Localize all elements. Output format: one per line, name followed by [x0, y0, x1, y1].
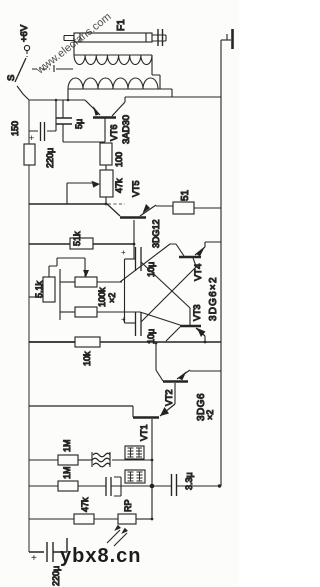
svg-text:+: +	[29, 133, 34, 143]
svg-text:VT5: VT5	[131, 180, 141, 197]
wire bottom rail	[29, 538, 67, 552]
transformer winding W2 (lower)	[68, 78, 172, 89]
wire rail y204 with wiper arrow	[29, 181, 125, 204]
capacitor 220u upper	[29, 100, 56, 168]
svg-text:RP: RP	[123, 499, 133, 512]
resistor 10k	[29, 337, 221, 366]
svg-text:VT3: VT3	[192, 304, 202, 321]
transistor VT2	[156, 343, 221, 406]
resistor 5.1k	[29, 258, 85, 302]
svg-text:1M: 1M	[62, 466, 72, 479]
svg-text:+6V: +6V	[19, 24, 30, 42]
wire winding W2 left end down	[67, 89, 69, 100]
svg-text:220μ: 220μ	[45, 148, 55, 168]
transistor VT3	[166, 304, 206, 342]
svg-text:+: +	[121, 248, 126, 257]
svg-text:VT1: VT1	[139, 424, 149, 441]
wire cross coupling D2	[141, 267, 196, 322]
sensor element crystal	[92, 452, 152, 467]
svg-text:47k: 47k	[114, 178, 124, 193]
svg-text:3.3μ: 3.3μ	[184, 472, 194, 490]
wire tube left end to winding	[73, 42, 75, 55]
svg-text:VT2: VT2	[164, 389, 174, 406]
svg-text:10k: 10k	[82, 351, 92, 366]
label box sensor 2	[125, 470, 145, 483]
label 3DG6x2 multivibrator	[208, 276, 219, 321]
capacitor 220u lower	[31, 542, 61, 586]
svg-text:+: +	[121, 315, 126, 324]
capacitor 5u	[56, 100, 84, 142]
svg-text:3DG12: 3DG12	[151, 219, 161, 248]
svg-text:51: 51	[180, 189, 191, 201]
wire right bus	[220, 40, 222, 486]
svg-text:F1: F1	[116, 19, 127, 31]
label box sensor 1	[125, 446, 144, 459]
resistor 100k upper	[60, 244, 184, 320]
resistor 47k lower	[29, 497, 118, 524]
wire winding common right end	[152, 55, 172, 97]
svg-text:VT4: VT4	[193, 264, 204, 281]
transformer winding W1 (upper)	[74, 55, 152, 65]
terminal +6V	[19, 24, 30, 57]
wire emitter rail y100	[29, 99, 85, 101]
terminal electrode top right	[221, 29, 233, 49]
wire VT6 base node	[63, 141, 105, 143]
svg-text:150: 150	[10, 121, 20, 136]
transistor VT4	[179, 242, 221, 281]
wire VT5 base to cap node	[124, 259, 126, 323]
svg-text:51k: 51k	[72, 231, 82, 246]
transistor VT1	[29, 404, 175, 520]
capacitor 10u lower	[121, 312, 156, 344]
label 3DG6x2 pair VT1 VT2	[196, 393, 215, 421]
svg-text:VT6: VT6	[109, 124, 119, 141]
switch S	[6, 58, 29, 100]
svg-text:3DG6×2: 3DG6×2	[208, 276, 219, 321]
svg-text:5.1k: 5.1k	[34, 280, 44, 298]
svg-text:ybx8.cn: ybx8.cn	[60, 545, 141, 567]
resistor 1M upper	[29, 439, 92, 465]
resistor 100	[100, 143, 124, 170]
resistor 51k	[29, 231, 134, 249]
svg-text:100: 100	[114, 152, 124, 167]
resistor 100k lower	[60, 287, 180, 325]
resistor 1M lower	[58, 466, 78, 491]
svg-text:5μ: 5μ	[74, 119, 84, 129]
svg-text:3AD30: 3AD30	[121, 115, 132, 144]
wire top rail y97 to right bus	[125, 96, 221, 98]
fluorescent tube F1	[64, 19, 166, 46]
resistor 150	[10, 121, 35, 165]
node junction dot	[150, 484, 155, 489]
svg-text:1M: 1M	[62, 439, 72, 452]
transistor VT5 3DG12	[106, 180, 161, 259]
sensor element mic	[106, 477, 121, 496]
svg-text:+: +	[31, 553, 37, 564]
svg-text:×2: ×2	[107, 293, 117, 303]
svg-text:220μ: 220μ	[51, 566, 61, 586]
capacitor 10u upper	[121, 247, 156, 277]
svg-text:×2: ×2	[205, 410, 215, 420]
wire left bus	[28, 100, 30, 552]
svg-text:47k: 47k	[80, 497, 90, 512]
svg-text:100k: 100k	[97, 287, 107, 307]
capacitor 3.3u	[152, 472, 221, 496]
wire rail y486	[29, 485, 152, 487]
resistor 51	[156, 189, 221, 214]
photoresistor RP	[107, 499, 152, 546]
potentiometer 47k	[100, 170, 124, 204]
wire VT6 collector to rail	[124, 97, 126, 102]
transistor VT6 3AD30	[85, 100, 132, 144]
wire cross coupling D1	[141, 262, 190, 308]
wire dash-dot feed to transformer	[32, 65, 73, 72]
